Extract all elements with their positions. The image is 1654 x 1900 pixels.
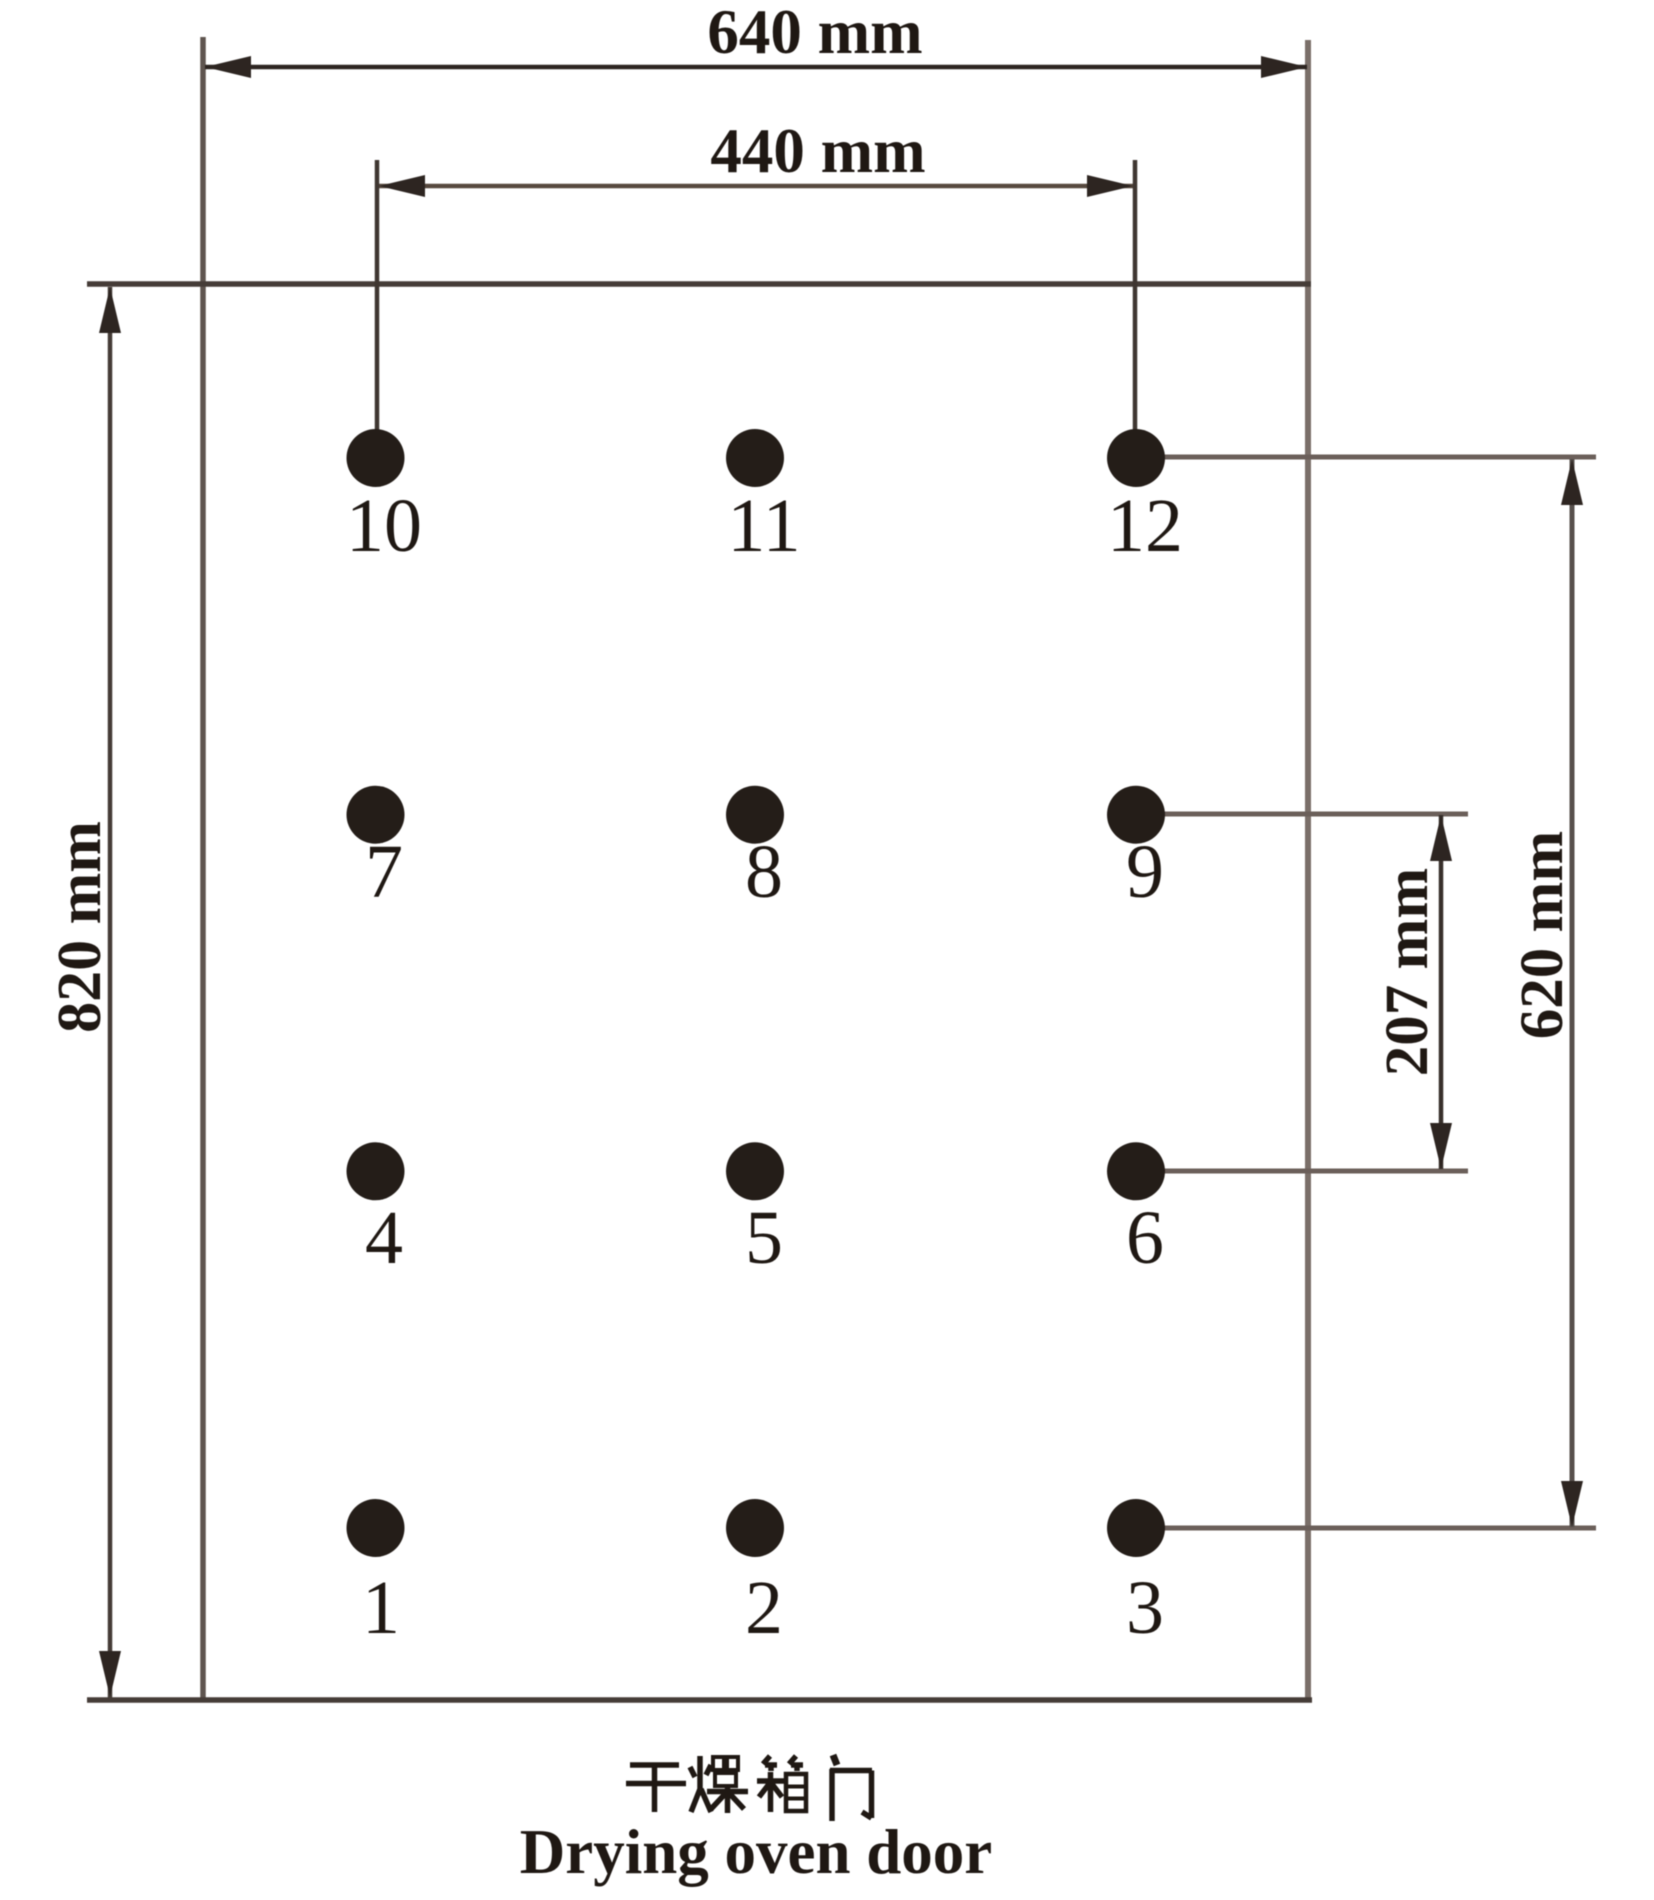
- svg-text:4: 4: [365, 1196, 403, 1280]
- svg-text:Drying oven door: Drying oven door: [520, 1817, 993, 1887]
- svg-text:12: 12: [1107, 484, 1183, 568]
- svg-text:5: 5: [745, 1196, 783, 1280]
- svg-text:8: 8: [745, 830, 783, 914]
- svg-text:11: 11: [727, 484, 800, 568]
- svg-text:620 mm: 620 mm: [1509, 831, 1576, 1039]
- svg-text:10: 10: [346, 484, 422, 568]
- svg-text:207 mm: 207 mm: [1374, 868, 1441, 1076]
- svg-text:640 mm: 640 mm: [707, 0, 922, 67]
- svg-text:6: 6: [1126, 1196, 1164, 1280]
- svg-text:440 mm: 440 mm: [710, 116, 925, 186]
- svg-text:1: 1: [362, 1566, 400, 1650]
- svg-text:3: 3: [1126, 1566, 1164, 1650]
- svg-text:7: 7: [365, 830, 403, 914]
- svg-text:820 mm: 820 mm: [46, 821, 114, 1033]
- svg-text:9: 9: [1126, 830, 1164, 914]
- svg-text:2: 2: [745, 1566, 783, 1650]
